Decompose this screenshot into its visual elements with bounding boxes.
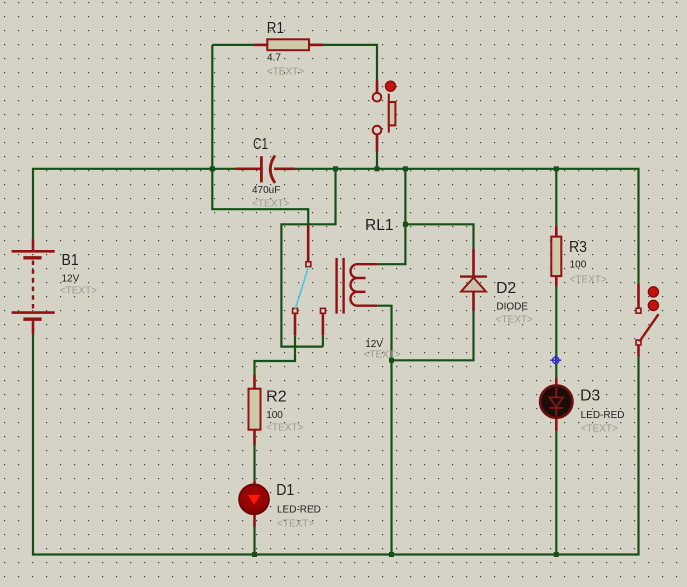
svg-text:470uF: 470uF (252, 185, 280, 196)
svg-text:<TEXT>: <TEXT> (267, 67, 304, 78)
svg-text:RL1: RL1 (365, 217, 393, 234)
svg-text:100: 100 (570, 260, 587, 271)
svg-text:12V: 12V (62, 274, 80, 285)
svg-text:<TEXT>: <TEXT> (570, 275, 607, 286)
svg-text:R1: R1 (267, 20, 284, 37)
svg-text:D1: D1 (276, 482, 294, 499)
svg-text:<TEXT>: <TEXT> (252, 199, 289, 210)
svg-text:R2: R2 (266, 389, 287, 406)
svg-text:C1: C1 (253, 136, 268, 153)
svg-text:<TEXT>: <TEXT> (496, 315, 533, 326)
svg-text:<TEXT>: <TEXT> (581, 424, 618, 435)
svg-text:4.7: 4.7 (267, 53, 281, 64)
svg-text:D3: D3 (580, 388, 600, 405)
svg-text:R3: R3 (569, 239, 587, 256)
svg-text:LED-RED: LED-RED (581, 410, 625, 421)
svg-text:12V: 12V (365, 339, 383, 350)
svg-text:<TEXT>: <TEXT> (60, 286, 97, 297)
svg-text:<TEXT>: <TEXT> (364, 350, 401, 361)
svg-text:100: 100 (266, 410, 283, 421)
svg-text:DIODE: DIODE (496, 302, 528, 313)
svg-text:<TEXT>: <TEXT> (277, 519, 314, 530)
svg-text:LED-RED: LED-RED (277, 505, 321, 516)
svg-text:B1: B1 (62, 252, 79, 269)
svg-text:<TEXT>: <TEXT> (266, 423, 303, 434)
svg-text:D2: D2 (496, 280, 516, 297)
